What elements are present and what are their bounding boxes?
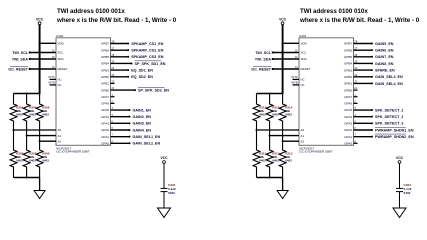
svg-text:TWI_SCL: TWI_SCL — [255, 51, 272, 55]
svg-text:PWRAMP_SHDN2_EN: PWRAMP_SHDN2_EN — [375, 135, 414, 139]
svg-text:GAIN7_EN: GAIN7_EN — [375, 55, 394, 59]
svg-text:A1: A1 — [301, 134, 305, 138]
svg-text:GPA4: GPA4 — [344, 115, 352, 119]
svg-text:GPB7: GPB7 — [101, 42, 109, 46]
svg-text:SP_SPK_SD2_EN: SP_SPK_SD2_EN — [138, 88, 169, 92]
svg-text:SPKAMP_CS2_EN: SPKAMP_CS2_EN — [131, 49, 164, 53]
svg-text:GPB0: GPB0 — [101, 88, 109, 92]
svg-text:I2C_RESET: I2C_RESET — [8, 67, 28, 71]
svg-text:GAIN_SEL3_EN: GAIN_SEL3_EN — [375, 75, 403, 79]
svg-text:NC: NC — [301, 83, 305, 87]
svg-text:GPB4: GPB4 — [344, 62, 352, 66]
svg-text:0402: 0402 — [259, 158, 266, 162]
svg-text:GPB6: GPB6 — [101, 48, 109, 52]
svg-text:GPB3: GPB3 — [101, 68, 109, 72]
svg-text:GPA2: GPA2 — [101, 128, 109, 132]
svg-text:A1: A1 — [58, 134, 62, 138]
svg-text:INTB: INTB — [48, 81, 55, 85]
svg-text:SPK_DETECT_1: SPK_DETECT_1 — [375, 108, 404, 112]
svg-text:0402: 0402 — [285, 158, 292, 162]
svg-text:GAIN2_EN: GAIN2_EN — [133, 115, 152, 119]
svg-text:GPA7: GPA7 — [101, 95, 109, 99]
svg-text:GAIN8_EN: GAIN8_EN — [375, 62, 394, 66]
svg-text:TWI address 0100 001x: TWI address 0100 001x — [57, 8, 125, 15]
svg-text:I2C IO EXPANDER 16BIT: I2C IO EXPANDER 16BIT — [56, 149, 90, 153]
svg-text:VCC: VCC — [36, 17, 44, 21]
svg-text:0402: 0402 — [42, 158, 49, 162]
svg-text:GAIN1_EN: GAIN1_EN — [133, 108, 152, 112]
svg-text:GPB3: GPB3 — [344, 68, 352, 72]
svg-text:PWRAMP_SHDN1_EN: PWRAMP_SHDN1_EN — [375, 128, 414, 132]
svg-text:SPARE_EN: SPARE_EN — [375, 68, 395, 72]
svg-text:GPA0: GPA0 — [101, 141, 109, 145]
svg-text:0402: 0402 — [272, 158, 279, 162]
svg-text:VCC: VCC — [396, 156, 404, 160]
svg-text:A0: A0 — [301, 128, 305, 132]
svg-text:GPA1: GPA1 — [101, 135, 109, 139]
svg-text:GPB4: GPB4 — [101, 62, 109, 66]
svg-text:RESET: RESET — [58, 67, 68, 71]
svg-text:U304: U304 — [299, 34, 307, 38]
svg-text:NC: NC — [301, 78, 305, 82]
svg-text:SCL: SCL — [58, 51, 64, 55]
svg-text:GPA6: GPA6 — [344, 102, 352, 106]
svg-text:0402: 0402 — [404, 191, 411, 195]
svg-text:VDD: VDD — [58, 42, 65, 46]
svg-text:GPA2: GPA2 — [344, 128, 352, 132]
svg-text:VDD: VDD — [301, 42, 308, 46]
svg-text:where x is the R/W bit. Read -: where x is the R/W bit. Read - 1, Write … — [299, 17, 420, 24]
svg-text:SPK_DETECT_2: SPK_DETECT_2 — [375, 115, 404, 119]
svg-text:0402: 0402 — [42, 112, 49, 116]
svg-text:VCC: VCC — [279, 17, 287, 21]
svg-text:SDA: SDA — [301, 57, 307, 61]
svg-text:GPA0: GPA0 — [344, 141, 352, 145]
svg-text:SPKAMP_CS3_EN: SPKAMP_CS3_EN — [131, 55, 164, 59]
svg-text:GPA1: GPA1 — [344, 135, 352, 139]
svg-text:GPB2: GPB2 — [101, 75, 109, 79]
svg-text:0402: 0402 — [259, 112, 266, 116]
svg-text:TWI_SDA: TWI_SDA — [255, 57, 272, 61]
svg-text:GPB5: GPB5 — [344, 55, 352, 59]
svg-text:GPA3: GPA3 — [344, 122, 352, 126]
svg-text:GAIN3_EN: GAIN3_EN — [133, 122, 152, 126]
svg-text:0402: 0402 — [168, 191, 175, 195]
svg-text:TWI_SCL: TWI_SCL — [12, 51, 29, 55]
svg-text:GPA5: GPA5 — [101, 108, 109, 112]
svg-text:VCC: VCC — [161, 156, 169, 160]
svg-text:TWI_SDA: TWI_SDA — [12, 57, 29, 61]
svg-text:GPB1: GPB1 — [101, 82, 109, 86]
svg-text:GPB0: GPB0 — [344, 88, 352, 92]
svg-text:GAIN_SEL1_EN: GAIN_SEL1_EN — [133, 135, 161, 139]
svg-text:GPB5: GPB5 — [101, 55, 109, 59]
svg-text:GAIN_SEL4_EN: GAIN_SEL4_EN — [375, 82, 403, 86]
svg-text:A2: A2 — [58, 139, 62, 143]
svg-text:I2C_RESET: I2C_RESET — [251, 67, 271, 71]
svg-text:INTA: INTA — [48, 75, 54, 79]
svg-text:GPA4: GPA4 — [101, 115, 109, 119]
svg-text:GPB6: GPB6 — [344, 48, 352, 52]
svg-text:INTA: INTA — [291, 75, 297, 79]
svg-text:0402: 0402 — [272, 112, 279, 116]
svg-text:NC: NC — [58, 83, 62, 87]
svg-text:GPA5: GPA5 — [344, 108, 352, 112]
svg-text:GAIN4_EN: GAIN4_EN — [133, 128, 152, 132]
svg-text:EQ_SD2_EN: EQ_SD2_EN — [131, 75, 153, 79]
svg-text:TWI address 0100 010x: TWI address 0100 010x — [300, 8, 368, 15]
svg-text:GPB1: GPB1 — [344, 82, 352, 86]
svg-text:NC: NC — [58, 78, 62, 82]
svg-text:GAIN5_EN: GAIN5_EN — [375, 42, 394, 46]
svg-text:INTB: INTB — [291, 81, 298, 85]
svg-text:RESET: RESET — [301, 67, 311, 71]
svg-text:SDA: SDA — [58, 57, 64, 61]
svg-text:0402: 0402 — [285, 112, 292, 116]
svg-text:0402: 0402 — [29, 112, 36, 116]
svg-text:A0: A0 — [58, 128, 62, 132]
svg-text:GAIN_SEL2_EN: GAIN_SEL2_EN — [133, 142, 161, 146]
svg-text:SPKAMP_CS1_EN: SPKAMP_CS1_EN — [131, 42, 164, 46]
svg-text:GPB2: GPB2 — [344, 75, 352, 79]
svg-text:SCL: SCL — [301, 51, 307, 55]
svg-text:GPA7: GPA7 — [344, 95, 352, 99]
svg-text:0402: 0402 — [16, 158, 23, 162]
svg-text:U303: U303 — [56, 34, 64, 38]
svg-text:0402: 0402 — [16, 112, 23, 116]
svg-text:where x is the R/W bit. Read -: where x is the R/W bit. Read - 1, Write … — [56, 17, 177, 24]
svg-text:GPA3: GPA3 — [101, 122, 109, 126]
svg-text:A2: A2 — [301, 139, 305, 143]
svg-text:EQ_SD1_EN: EQ_SD1_EN — [131, 68, 153, 72]
svg-text:GPB7: GPB7 — [344, 42, 352, 46]
svg-text:SP_SPK_SD1_EN: SP_SPK_SD1_EN — [135, 62, 166, 66]
svg-text:I2C IO EXPANDER 16BIT: I2C IO EXPANDER 16BIT — [299, 149, 333, 153]
svg-text:SPK_DETECT_3: SPK_DETECT_3 — [375, 122, 404, 126]
svg-text:GPA6: GPA6 — [101, 102, 109, 106]
svg-text:0402: 0402 — [29, 158, 36, 162]
svg-text:GAIN6_EN: GAIN6_EN — [375, 49, 394, 53]
